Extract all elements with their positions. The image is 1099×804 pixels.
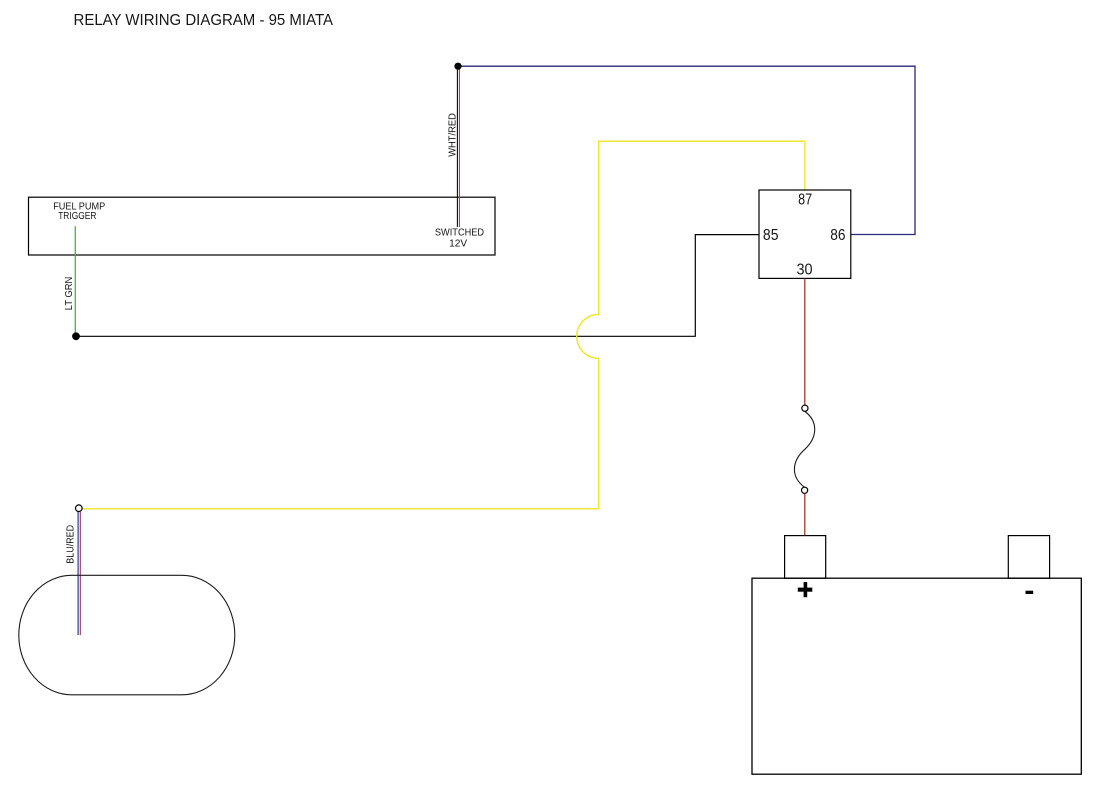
wire yellow relay 87 to pump with hop [82,141,805,509]
wire switched-12V blue [458,66,915,234]
junction dot at top of WHT/RED [454,63,461,70]
wire BLU/RED red stripe [79,512,81,635]
svg-text:TRIGGER: TRIGGER [58,211,96,222]
svg-text:LT GRN: LT GRN [64,277,75,311]
wire WHT/RED red stripe [458,68,460,228]
svg-text:SWITCHED: SWITCHED [435,228,484,239]
wire trigger node to relay 85 [76,235,759,337]
battery BT1 negative terminal post [1008,536,1049,579]
svg-text:12V: 12V [449,238,467,249]
battery BT1 positive terminal post [785,536,826,579]
pump terminal circle [76,505,83,512]
fuse terminal circle top [802,405,808,411]
svg-text:RELAY WIRING DIAGRAM - 95 MIAT: RELAY WIRING DIAGRAM - 95 MIATA [74,12,334,29]
svg-text:86: 86 [830,227,845,244]
svg-text:WHT/RED: WHT/RED [448,113,459,157]
fuse terminal circle bottom [802,487,808,493]
wire WHT/RED black stripe [456,66,458,227]
junction dot LT GRN node [72,332,80,340]
fuel pump trigger box [29,197,496,255]
battery BT1 body [752,578,1081,774]
svg-text:87: 87 [798,191,812,208]
wire BLU/RED blue stripe [77,512,79,635]
relay U1 box [759,190,851,278]
plus symbol [798,588,813,592]
svg-text:85: 85 [763,227,779,244]
fuel pump body (stadium) [19,575,235,695]
wire relay 30 to fuse red [804,278,806,405]
fuse F1 element [794,412,814,488]
wire LT GRN green [74,226,76,336]
svg-text:30: 30 [797,262,813,279]
svg-text:BLU/RED: BLU/RED [66,525,77,564]
minus symbol [1026,591,1034,594]
wire fuse to battery red [804,493,806,535]
